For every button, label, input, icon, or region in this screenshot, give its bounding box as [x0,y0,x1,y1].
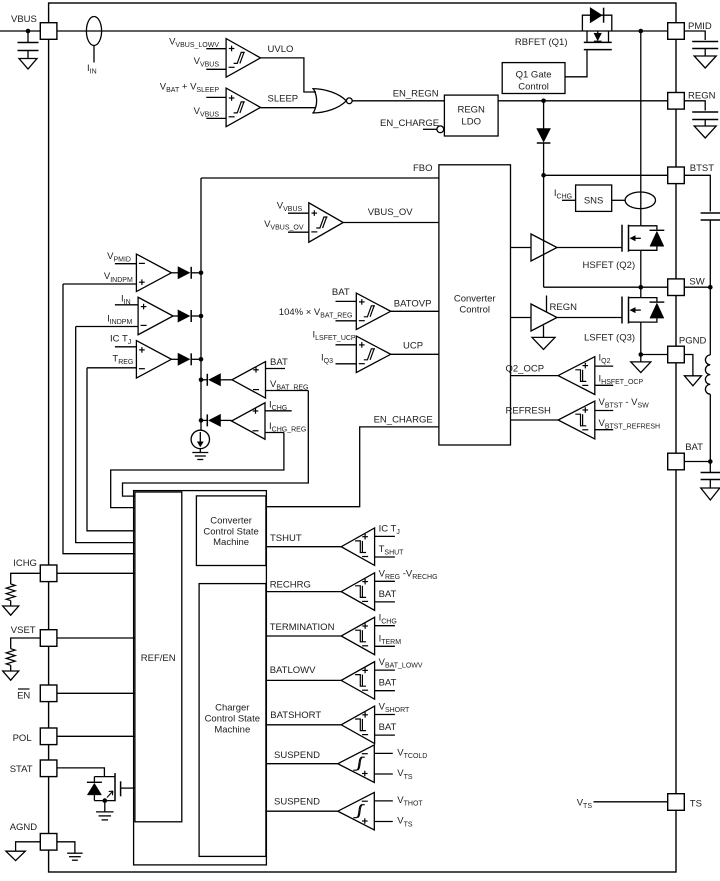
wire TSHUT output [266,546,341,548]
svg-text:LSFET (Q3): LSFET (Q3) [584,333,635,344]
node PMID rail junction [639,29,644,34]
node bus VBATREG [199,378,204,383]
svg-text:TSHUT: TSHUT [270,533,302,544]
svg-text:Control State: Control State [203,526,258,537]
ground bias [192,452,208,454]
comparator BATSHORT [341,706,374,744]
pin PMID [668,23,685,40]
wire RECHRG bottom stub [375,601,395,603]
svg-text:BAT: BAT [685,442,703,453]
wire REGN ext [684,101,705,111]
wire IQ2 stub [595,365,613,367]
node LSFET source junction [639,352,644,357]
wire BAT cap [709,462,711,473]
block REF/EN [135,492,182,822]
node VBUS input junction [26,29,31,34]
svg-text:PGND: PGND [679,336,707,347]
wire IIN tail [93,46,95,63]
svg-text:VBTST_REFRESH: VBTST_REFRESH [599,418,661,431]
svg-text:TERMINATION: TERMINATION [270,622,335,633]
pin VSET [40,630,57,647]
comparator UCP [356,336,390,373]
svg-text:ICHG: ICHG [554,188,572,201]
wire RECHRG top stub [375,580,395,582]
svg-text:IC TJ: IC TJ [110,333,131,346]
svg-text:BTST: BTST [690,163,714,174]
wire REGN cap gnd [704,120,706,127]
wire ICHG res gnd [10,601,12,606]
diode RBFET body [597,31,599,33]
svg-text:VBUS: VBUS [11,14,37,25]
wire VBAT_REG to REF/EN [123,391,309,497]
svg-text:VVBUS_OV: VVBUS_OV [264,219,304,232]
wire SLEEP - input stub [206,117,226,119]
wire UCP output [391,353,439,355]
diode STAT body [93,777,95,783]
svg-text:SUSPEND: SUSPEND [274,797,320,808]
svg-text:VTS: VTS [577,798,593,811]
node BAT ext junction [708,459,713,464]
block Q1 Gate Control [502,63,565,94]
wire SUSPEND cold top stub [374,752,393,754]
current sense IIN [86,17,101,46]
ground LSFET source [640,355,642,362]
comparator TERMINATION [341,617,374,655]
svg-text:REF/EN: REF/EN [141,653,176,664]
comparator REFRESH [558,401,595,439]
block Converter Control [439,165,511,445]
wire HS driver to gate [557,247,622,249]
wire VBTST_REFRESH stub [595,429,613,431]
capacitor BAT ext [701,472,720,474]
wire SLEEP output [261,107,317,109]
block REGN LDO [444,95,498,136]
wire LS driver supply tick [546,296,548,313]
comparator VBUS_OV [309,203,343,243]
comparator SUSPEND hot [338,792,375,830]
svg-text:HSFET (Q2): HSFET (Q2) [583,260,636,271]
svg-text:TREG: TREG [112,354,133,367]
wire BATLOWV bottom stub [375,690,395,692]
wire VBUS input [0,30,40,32]
diode HSFET body [641,226,657,230]
svg-text:VPMID: VPMID [107,251,131,264]
wire VBAT_REG input [266,390,309,392]
diode bootstrap [537,129,551,143]
wire VBUS_OV - stub [288,231,309,233]
svg-text:RECHRG: RECHRG [270,580,311,591]
wire REGN to diode [543,101,545,129]
wire PMID cap gnd [704,49,706,57]
diode or IINDPM [173,315,178,317]
svg-text:VBAT_REG: VBAT_REG [270,379,309,392]
pin REGN [668,93,685,110]
wire BTST rail [544,174,668,176]
block SNS [576,185,612,211]
wire UVLO output [261,58,317,92]
svg-text:VVBUS: VVBUS [194,106,220,119]
diode RBFET bypass [590,8,602,23]
wire EN_REGN [352,100,444,102]
svg-text:ITERM: ITERM [379,633,402,646]
buffer HSFET driver [531,234,557,261]
svg-text:VBAT + VSLEEP: VBAT + VSLEEP [160,82,220,95]
wire diode to BTST [543,143,545,175]
svg-text:VBUS_OV: VBUS_OV [368,207,414,218]
svg-text:Converter: Converter [210,516,252,527]
wire ICHG_REG input [265,432,284,434]
svg-text:BAT: BAT [379,722,397,733]
wire ICHG sns stub [562,199,576,201]
svg-text:IQ3: IQ3 [321,352,333,365]
wire UCP - stub [336,363,357,365]
wire PGND ext [684,355,693,376]
wire converter to HS driver [511,247,532,249]
svg-text:EN_CHARGE: EN_CHARGE [374,414,433,425]
node bus TREG [199,357,204,362]
resistor ICHG ext [6,584,15,601]
wire BATLOWV top stub [375,669,395,671]
svg-text:VREG -VRECHG: VREG -VRECHG [379,568,438,581]
svg-text:VBAT_LOWV: VBAT_LOWV [379,657,423,670]
wire BATSHORT output [266,724,341,726]
comparator BATLOWV [341,662,374,700]
bubble EN_CHARGE inverter [437,126,444,133]
wire PMID ext [684,31,705,40]
pin BAT [668,453,685,470]
capacitor input bypass [18,42,39,44]
wire VBUS rail [57,30,668,32]
svg-text:VVBUS: VVBUS [277,201,303,214]
comparator SLEEP [226,88,260,127]
wire RECHRG output [266,591,341,593]
wire IINDPM to REF/EN [76,327,135,543]
wire ICTJ stub [115,346,136,348]
wire Q1 gate lead [565,50,587,77]
transistor RBFET Q1 bypass loop [582,15,611,31]
wire BATSHORT bottom stub [375,734,395,736]
pin ICHG [40,565,57,582]
wire TSHUT top stub [375,535,395,537]
svg-text:BAT: BAT [379,589,397,600]
wire ICHG ext [11,573,41,584]
ground AGND left [6,851,25,860]
svg-text:VTCOLD: VTCOLD [397,748,427,761]
wire BATLOWV output [266,679,341,681]
wire feedback bus [200,178,202,431]
capacitor REGN ext [692,111,718,113]
svg-text:ICHG_REG: ICHG_REG [269,421,306,434]
pin POL [40,728,57,745]
pin PGND [668,346,685,363]
wire SUSPEND hot bottom stub [374,821,393,823]
svg-text:Control: Control [518,81,549,92]
comparator Q2_OCP [558,357,595,395]
wire UVLO + input stub [206,48,226,50]
node bus VINDPM [199,271,204,276]
svg-text:IIN: IIN [121,293,131,306]
node BTST junction [541,173,546,178]
wire LS driver gnd tick [543,326,545,338]
node bus IINDPM [199,314,204,319]
resistor VSET ext [6,649,15,666]
svg-text:Q2_OCP: Q2_OCP [506,364,545,375]
wire TREG to REF/EN [87,368,135,531]
svg-text:ILSFET_UCP: ILSFET_UCP [313,330,356,343]
wire boot cap to SW [709,220,711,287]
wire EN to REF/EN [57,692,135,694]
svg-text:BATOVP: BATOVP [394,298,432,309]
svg-text:VVBUS_LOWV: VVBUS_LOWV [169,36,219,49]
svg-text:STAT: STAT [10,764,33,775]
svg-text:Control State: Control State [205,714,260,725]
wire EN_CHARGE stub [423,128,437,130]
diode LSFET body [641,298,657,302]
wire STAT to FET drain [57,768,105,777]
ground LS driver [532,337,555,349]
diode or ICHG_REG [201,419,207,421]
node SW junction [639,285,644,290]
wire IHSFET_OCP stub [595,384,613,386]
svg-text:REGN: REGN [688,91,716,102]
wire POL to REF/EN [57,735,135,737]
wire TERMINATION bottom stub [375,645,395,647]
svg-text:SUSPEND: SUSPEND [274,750,320,761]
wire VBTST-VSW stub [595,410,613,412]
pin EN [40,685,57,702]
wire to input capacitor [27,31,29,43]
wire VSET res gnd [10,665,12,671]
wire ICHG reg stub [265,410,292,412]
wire TREG input [87,367,136,369]
svg-text:VSET: VSET [11,625,36,636]
diode or TREG [171,358,178,360]
svg-text:POL: POL [13,733,32,744]
svg-text:Machine: Machine [213,537,249,548]
wire VTS to TS [594,801,668,803]
ground input cap [19,59,37,70]
svg-text:BAT: BAT [270,357,288,368]
wire SUSPEND cold output [266,763,337,765]
ground BAT cap [701,488,720,500]
wire cap to ground [27,51,29,59]
inductor ext [709,287,711,355]
svg-text:IHSFET_OCP: IHSFET_OCP [599,374,644,387]
svg-text:SW: SW [689,276,704,287]
svg-text:TS: TS [690,798,702,809]
svg-text:REGN: REGN [457,105,485,116]
wire BAT reg stub [266,368,286,370]
wire VINDPM to REF/EN [63,284,135,554]
wire bias to gnd [199,449,201,453]
wire AGND left gnd [16,842,41,851]
svg-text:ICHG: ICHG [269,399,287,412]
wire REFRESH output [511,419,559,421]
svg-text:BAT: BAT [379,678,397,689]
ground VSET ext [3,671,19,680]
svg-text:SLEEP: SLEEP [268,94,299,105]
svg-text:VINDPM: VINDPM [104,271,133,284]
svg-text:REFRESH: REFRESH [506,406,552,417]
wire UVLO - input stub [206,68,226,70]
wire SUSPEND hot top stub [374,800,393,802]
wire IIN stub [115,304,138,306]
wire BATSHORT top stub [375,714,395,716]
wire FBO [201,177,439,179]
wire VPMID stub [115,263,136,265]
wire BATOVP output [391,310,439,312]
svg-text:UCP: UCP [403,340,423,351]
svg-text:IIN: IIN [87,63,97,76]
wire STAT source gnd [104,801,106,812]
op-amp ICHG_REG [232,403,266,440]
block Converter Control State Machine [196,496,266,566]
ground REGN cap [694,126,716,138]
ground STAT [96,811,114,813]
wire BATOVP + stub [336,300,357,302]
svg-text:104% × VBAT_REG: 104% × VBAT_REG [279,307,353,320]
svg-text:IC TJ: IC TJ [379,523,400,536]
wire EN_CHARGE mid [266,427,439,507]
pin STAT [40,760,57,777]
block Charger Control State Machine [199,584,266,857]
svg-text:ICHG: ICHG [13,558,37,569]
svg-text:Machine: Machine [214,725,250,736]
op-amp VINDPM [136,254,171,291]
pin AGND [40,834,57,851]
current source bias [191,430,209,448]
wire SUSPEND hot output [266,810,337,812]
comparator BATOVP [356,293,390,330]
op-amp TREG [136,341,171,379]
wire SNS to sense [612,199,625,201]
svg-text:VBTST - VSW: VBTST - VSW [599,397,650,410]
transistor HSFET Q2 [621,225,623,252]
node bus ICHGREG [199,418,204,423]
svg-text:AGND: AGND [10,822,38,833]
block charger control outer [134,491,267,865]
pin VBUS [40,23,57,40]
wire BAT cap gnd [709,480,711,489]
node STAT source junction [103,798,108,803]
wire UCP + stub [336,344,357,346]
gate NOR sleep/uvlo [312,89,346,113]
op-amp IINDPM [138,297,173,335]
transistor STAT open-drain [94,776,115,778]
pin TS [668,794,685,811]
op-amp VBAT_REG [232,362,266,399]
wire TERMINATION output [266,635,341,637]
wire PMID to HSFET drain [640,31,642,226]
wire ICHG_REG to REF/EN [111,433,284,508]
svg-text:BATSHORT: BATSHORT [270,710,321,721]
svg-text:VTS: VTS [397,816,413,829]
wire to SW [544,286,668,288]
wire BATOVP - stub [336,320,357,322]
wire TSHUT bottom stub [375,556,395,558]
pin SW [668,279,685,296]
svg-text:BATLOWV: BATLOWV [270,665,316,676]
svg-text:VVBUS: VVBUS [194,56,220,69]
capacitor bootstrap ext [701,212,720,214]
wire LS driver to gate [557,317,622,319]
comparator SUSPEND cold [338,745,375,783]
svg-text:EN: EN [17,690,30,701]
svg-text:IQ2: IQ2 [599,353,611,366]
wire BAT ext [684,461,710,463]
svg-text:Converter: Converter [454,294,496,305]
comparator TSHUT [341,528,374,566]
wire converter to LS driver [511,317,532,319]
comparator RECHRG [341,573,374,611]
wire ICHG to REF/EN [57,572,135,574]
wire VSET ext [11,638,41,649]
svg-text:BAT: BAT [332,287,350,298]
wire REGN rail [498,100,668,102]
svg-text:FBO: FBO [413,163,433,174]
svg-text:ICHG: ICHG [379,613,397,626]
diode or VBAT_REG [201,379,207,381]
svg-text:REGN: REGN [550,302,578,313]
ground AGND right [67,852,83,854]
svg-text:EN_REGN: EN_REGN [393,89,439,100]
wire BTST internal drop [543,175,545,287]
wire TERMINATION top stub [375,625,395,627]
current sense loop ICHG [625,192,655,209]
svg-text:UVLO: UVLO [268,44,294,55]
pin BTST [668,167,685,184]
svg-text:Q1 Gate: Q1 Gate [516,70,552,81]
svg-text:VSHORT: VSHORT [379,702,410,715]
wire LSFET source to PGND [641,354,668,356]
ground PGND ext [684,376,701,386]
diode or VINDPM [171,272,178,274]
ground PMID cap [694,56,716,68]
svg-text:TSHUT: TSHUT [379,544,405,557]
ground ICHG ext [3,606,19,615]
wire IINDPM input [76,326,138,328]
svg-text:Control: Control [459,304,490,315]
transistor RBFET Q1 body [586,31,588,42]
wire Q2_OCP output [511,375,559,377]
svg-text:SNS: SNS [584,196,604,207]
svg-text:VTS: VTS [397,768,413,781]
capacitor PMID ext [692,41,718,43]
wire VBUS_OV + stub [288,212,309,214]
svg-text:Charger: Charger [215,702,249,713]
wire BTST ext [684,175,710,211]
node REGN junction [541,99,546,104]
wire SLEEP + input stub [206,96,226,98]
svg-text:EN_CHARGE: EN_CHARGE [380,118,439,129]
wire SW ext [684,286,710,288]
svg-text:VTHOT: VTHOT [397,795,423,808]
transistor LSFET Q3 [621,297,623,324]
wire VSET to REF/EN [57,637,135,639]
wire VBUS_OV output [343,222,439,224]
wire AGND right gnd [57,842,75,853]
svg-text:IINDPM: IINDPM [107,313,132,326]
node SW ext junction [708,285,713,290]
buffer LSFET driver [531,304,557,331]
comparator UVLO [226,39,260,78]
svg-text:RBFET (Q1): RBFET (Q1) [515,37,568,48]
wire VINDPM input [63,283,136,285]
wire SUSPEND cold bottom stub [374,773,393,775]
svg-text:LDO: LDO [461,117,481,128]
